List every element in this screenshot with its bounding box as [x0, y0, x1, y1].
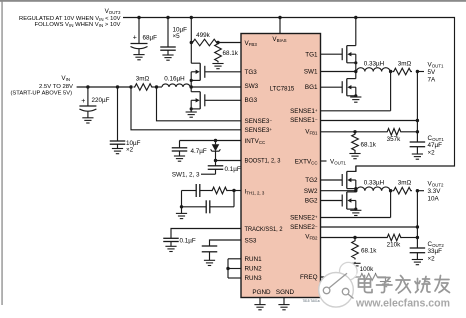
wire L1 to sense [389, 71, 392, 73]
wire VOUT3 to 499k and Q5 drain [190, 18, 192, 64]
junction dot sense2- vout2 [416, 225, 419, 228]
svg-text:VOUT3: VOUT3 [105, 8, 121, 15]
wire VFB2 run [321, 237, 356, 239]
wire VFB1 run [321, 131, 356, 133]
label + 68uF [133, 34, 157, 41]
svg-text:EXTVCC: EXTVCC [295, 158, 318, 165]
svg-text:RUN3: RUN3 [245, 275, 263, 282]
svg-text:SW1, 2, 3: SW1, 2, 3 [172, 172, 200, 179]
pin label TG2 [305, 177, 318, 184]
junction dot VOUT3-499k [190, 16, 193, 19]
wire BG3 gate lead [205, 99, 241, 101]
wire PGND [259, 298, 261, 305]
pin label TRACKSS12 [245, 226, 283, 233]
capacitor 0.1uF track [163, 238, 179, 246]
svg-text:ITH1, 2, 3: ITH1, 2, 3 [245, 188, 265, 195]
svg-text:0.33µH: 0.33µH [364, 60, 385, 67]
wire TG1 gate lead [321, 53, 343, 55]
junction dot sense3+ tap [129, 85, 132, 88]
junction dot ITH [232, 189, 235, 192]
svg-text:10A: 10A [428, 196, 440, 203]
pin label SENSE1+ [290, 108, 318, 115]
junction dot sense1- vout1 [416, 119, 419, 122]
svg-text:(START-UP ABOVE 5V): (START-UP ABOVE 5V) [11, 91, 73, 97]
svg-text:7815 TA01a: 7815 TA01a [302, 299, 319, 303]
svg-text:LTC7815: LTC7815 [270, 86, 295, 93]
ground 10uF x2 [112, 149, 123, 154]
wire INTVCC [180, 140, 242, 142]
svg-text:33µF: 33µF [428, 248, 443, 255]
wire VBIAS [279, 18, 281, 34]
svg-text:100k: 100k [360, 266, 375, 273]
wire Q1 source to SW1 [355, 63, 357, 72]
label 0.1uF track [180, 238, 196, 245]
junction dot sense1+ tap [389, 70, 392, 73]
junction dot VOUT3-VBIAS [278, 16, 281, 19]
wire Q3 drain to feed [355, 166, 357, 171]
svg-text:3mΩ: 3mΩ [136, 76, 150, 83]
wire SENSE2- run [321, 226, 418, 228]
pin label EXTVCC [295, 158, 318, 165]
pin label SW3 [245, 83, 259, 90]
svg-text:SS3: SS3 [245, 237, 257, 244]
resistor 210k [386, 234, 402, 241]
transistor Q4 (BG2 switch) [342, 192, 357, 211]
wire VOUT3 rail / node VOUT3 [123, 18, 455, 172]
wire 210k to VOUT2 [402, 237, 417, 239]
junction dot 357k vout1 [416, 130, 419, 133]
pin label VFB3 [245, 40, 258, 47]
label 3mOhm ch2 [398, 180, 412, 187]
svg-text:3.3V: 3.3V [428, 188, 442, 195]
svg-text:PGND: PGND [252, 289, 271, 296]
inductor 0.33uH ch2 [357, 187, 391, 191]
label COUT1 [428, 135, 445, 157]
ground 10uF x5 [162, 55, 173, 60]
wire ITH right leg [233, 191, 235, 207]
wire VOUT1 stub [417, 71, 424, 73]
label 4.7uF [191, 148, 207, 155]
svg-text:VFB2: VFB2 [305, 234, 318, 241]
text VIN startup [11, 91, 73, 97]
svg-text:×2: ×2 [428, 256, 436, 263]
wire L3 to SW3 node [190, 86, 191, 88]
svg-text:VOUT1: VOUT1 [428, 61, 444, 68]
svg-text:68.1k: 68.1k [223, 50, 239, 57]
wire SGND [283, 298, 285, 305]
junction dot SW2 [354, 189, 357, 192]
label 10uF x5 [173, 27, 188, 41]
svg-text:0.1µF: 0.1µF [180, 238, 196, 245]
svg-text:VFB1: VFB1 [305, 129, 318, 136]
label 0.33uH ch2 [364, 180, 385, 187]
junction dot sense2+ tap [389, 189, 392, 192]
transistor Q2 (BG1 switch) [342, 79, 357, 98]
label 210k [387, 242, 402, 249]
op-amp U1 LTC7815 block [241, 34, 321, 298]
pin label BG1 [305, 84, 318, 91]
wire VOUT2 stub [417, 190, 424, 192]
svg-text:0.33µH: 0.33µH [364, 180, 385, 187]
pin label TG3 [245, 69, 258, 76]
wire SENSE3- run [157, 87, 242, 121]
junction dot VOUT3-10uF [166, 16, 169, 19]
svg-text:+: + [133, 34, 137, 41]
pin label BG3 [245, 97, 258, 104]
wire TG2 gate lead [321, 179, 343, 181]
transistor Q5 (TG3 switch) [190, 63, 205, 82]
ground Q6 source [186, 112, 197, 117]
pin label ITH123 [245, 188, 265, 195]
svg-text:SGND: SGND [276, 289, 295, 296]
svg-text:BG1: BG1 [305, 84, 318, 91]
wire Q3 source to SW2 [355, 189, 357, 191]
svg-text:VFB3: VFB3 [245, 40, 258, 47]
capacitor 0.1uF boost [208, 161, 224, 175]
pin label TG1 [305, 51, 318, 58]
svg-text:TRACK/SS1, 2: TRACK/SS1, 2 [245, 226, 283, 233]
svg-text:210k: 210k [387, 242, 402, 249]
transistor Q6 (BG3 switch) [190, 92, 205, 111]
wire SENSE2+ run [321, 191, 391, 218]
svg-text:RUN1: RUN1 [245, 256, 263, 263]
junction dot VFB1 divider [353, 130, 356, 133]
svg-text:68.1k: 68.1k [361, 248, 377, 255]
label 499k [196, 32, 211, 39]
svg-text:+: + [81, 98, 85, 105]
wire 3m to inductor [153, 86, 162, 88]
junction dot BOOST-cap [214, 159, 217, 162]
pin label SW2 [304, 188, 318, 195]
pin label SS3 [245, 237, 257, 244]
resistor 68.1k (ch3 fb) [215, 43, 222, 63]
ground 100k [380, 282, 391, 287]
pin label VBIAS [272, 36, 286, 43]
svg-text:×2: ×2 [126, 147, 134, 154]
node label VIN [61, 75, 70, 82]
junction dot VIN-220uF [86, 85, 89, 88]
svg-text:TG1: TG1 [305, 51, 318, 58]
wire VIN rail [77, 86, 131, 88]
pin label SENSE2+ [290, 214, 318, 221]
label COUT2 [428, 241, 445, 263]
wire L2 to sense [389, 190, 392, 192]
svg-text:SW1: SW1 [304, 69, 318, 76]
wire BOOST123 [216, 160, 242, 162]
capacitor 10uF x2 [110, 87, 126, 149]
pin label PGND [252, 289, 271, 296]
watermark elecfans logo [319, 262, 357, 307]
label 68.1k ch3 [223, 50, 239, 57]
junction dot VOUT3-68uF [137, 16, 140, 19]
svg-text:BOOST1, 2, 3: BOOST1, 2, 3 [245, 157, 281, 164]
svg-text:VOUT2: VOUT2 [428, 181, 444, 188]
svg-text:3mΩ: 3mΩ [398, 60, 412, 67]
wire ITH left leg [181, 191, 183, 207]
resistor 68.1k ch2 [352, 238, 359, 260]
wire VOUT1 vertical [416, 72, 418, 143]
svg-text:www.elecfans.com: www.elecfans.com [355, 298, 450, 310]
capacitor COUT2 [410, 248, 426, 260]
pin label SENSE3- [245, 118, 273, 125]
node label SW123 [172, 172, 200, 179]
pin label RUN1 [245, 256, 263, 263]
capacitor ITH series C [182, 184, 212, 197]
junction dot SW3 [190, 85, 193, 88]
junction dot SW1 [354, 70, 357, 73]
svg-text:220µF: 220µF [92, 97, 110, 104]
wire VFB3 [218, 42, 241, 44]
node label VOUT3 [105, 8, 121, 15]
svg-text:COUT1: COUT1 [428, 135, 445, 142]
wire SW3 node to Q5 source [190, 80, 192, 87]
ground Q2 source [350, 97, 361, 102]
svg-text:0.1µF: 0.1µF [225, 166, 241, 173]
junction dot VOUT1 node [416, 70, 419, 73]
wire VFB1 to 357k [355, 131, 386, 133]
wire BG1 gate lead [321, 86, 343, 88]
ground COUT2 [412, 260, 423, 265]
watermark text chinese [356, 274, 451, 296]
pin label SENSE3+ [245, 127, 273, 134]
junction dot VFB3 node [216, 41, 219, 44]
junction dot VIN-10uFx2 [116, 85, 119, 88]
text regulated note line2 [35, 22, 121, 28]
pin label BG2 [305, 198, 318, 205]
wire 357k to VOUT1 [402, 131, 417, 133]
svg-text:47µF: 47µF [428, 142, 443, 149]
resistor 499k [191, 39, 218, 46]
svg-text:SENSE2−: SENSE2− [290, 224, 318, 231]
pin label SENSE2- [290, 224, 318, 231]
svg-text:FOLLOWS VIN WHEN VIN > 10V: FOLLOWS VIN WHEN VIN > 10V [35, 22, 121, 28]
wire to SW123 label [201, 173, 216, 175]
capacitor 68uF (polarized) [131, 18, 148, 49]
wire ITH pin [234, 190, 241, 192]
pin label SW1 [304, 69, 318, 76]
wire TRACK/SS12 [171, 229, 241, 239]
pin label VFB2 [305, 234, 318, 241]
svg-text:TG3: TG3 [245, 69, 258, 76]
resistor 3mOhm ch1 [393, 68, 413, 75]
wire VFB2 to 210k [355, 237, 386, 239]
svg-text:4.7µF: 4.7µF [191, 148, 207, 155]
label 3mOhm ch1 [398, 60, 412, 67]
svg-text:REGULATED AT 10V WHEN VIN < 10: REGULATED AT 10V WHEN VIN < 10V [19, 16, 121, 22]
resistor 100k [359, 274, 379, 281]
wire Q2 source to ground [355, 96, 357, 97]
ground SGND [278, 305, 289, 310]
svg-text:SENSE3+: SENSE3+ [245, 127, 273, 134]
diode D1 INTVCC to BOOST [211, 141, 221, 161]
wire Q6 drain to SW3 [190, 87, 192, 92]
svg-text:VOUT1: VOUT1 [330, 158, 346, 165]
capacitor 4.7uF [172, 141, 188, 157]
svg-text:INTVCC: INTVCC [245, 138, 266, 145]
watermark text url [355, 298, 450, 310]
resistor 357k [386, 129, 402, 136]
wire RUN tie [228, 259, 241, 278]
svg-text:COUT2: COUT2 [428, 241, 445, 248]
svg-text:×5: ×5 [173, 33, 181, 40]
pin label RUN3 [245, 275, 263, 282]
wire SENSE1- run [321, 120, 418, 122]
resistor 3mOhm ch3 [134, 84, 154, 91]
svg-text:FREQ: FREQ [300, 274, 318, 281]
wire Q4 drain to SW2 [355, 191, 357, 192]
pin label SENSE1- [290, 117, 318, 124]
ground PGND [254, 305, 265, 310]
capacitor COUT1 [410, 142, 426, 154]
capacitor 220uF (polarized) [79, 87, 96, 118]
label 10uF x2 [126, 140, 141, 154]
wire SW3 [191, 86, 241, 88]
pin label BOOST123 [245, 157, 281, 164]
svg-text:5V: 5V [428, 69, 437, 76]
svg-text:68.1k: 68.1k [361, 142, 377, 149]
junction dot ITH gnd node [180, 205, 183, 208]
svg-text:TG2: TG2 [305, 177, 318, 184]
label 357k [387, 136, 402, 143]
svg-text:×2: ×2 [428, 150, 436, 157]
svg-text:7A: 7A [428, 76, 437, 83]
page left border [1, 0, 2, 305]
wire SW1 [321, 71, 356, 73]
wire SW2 [321, 190, 356, 192]
pin label RUN2 [245, 266, 263, 273]
ground 220uF [82, 118, 93, 123]
wire Q2 drain to SW1 [355, 72, 357, 79]
label + 220uF [81, 97, 109, 105]
pin label FREQ [300, 274, 318, 281]
svg-text:0.16µH: 0.16µH [164, 76, 185, 83]
svg-text:SW2: SW2 [304, 188, 318, 195]
junction dot sense3- tap [155, 85, 158, 88]
junction dot VFB2 divider [353, 236, 356, 239]
pin label INTVCC [245, 138, 266, 145]
node label VOUT1 at EXTVCC [321, 158, 347, 165]
capacitor ITH parallel C [182, 200, 235, 213]
wire 100k to ground [379, 277, 386, 282]
svg-text:SENSE3−: SENSE3− [245, 118, 273, 125]
svg-text:2.5V TO 28V: 2.5V TO 28V [39, 84, 73, 90]
label LTC7815 [270, 86, 295, 93]
resistor 3mOhm ch2 [393, 187, 413, 194]
wire VOUT2 vertical [416, 191, 418, 248]
ground COUT1 [412, 154, 423, 159]
svg-text:SW3: SW3 [245, 83, 259, 90]
svg-text:BG2: BG2 [305, 198, 318, 205]
text regulated note line1 [19, 16, 121, 22]
wire FREQ [321, 276, 360, 278]
ground Q4 source [350, 210, 361, 215]
svg-text:357k: 357k [387, 136, 402, 143]
node label VOUT1 [428, 61, 444, 83]
svg-text:VIN: VIN [61, 75, 70, 82]
svg-text:68µF: 68µF [143, 34, 158, 41]
label 3mOhm ch3 [136, 76, 150, 83]
ground 4.7uF [174, 156, 185, 161]
label 0.1uF boost [225, 166, 241, 173]
text VIN range [39, 84, 73, 90]
capacitor 10uF x5 [160, 18, 176, 56]
junction dot VOUT2 node [416, 189, 419, 192]
inductor 0.33uH ch1 [357, 68, 391, 72]
wire SENSE1+ run [321, 72, 391, 111]
ground track cap [165, 246, 176, 251]
wire Q1 drain to VOUT3 rail [355, 18, 357, 46]
text figure number 7815 TA01a [302, 299, 319, 303]
ground 68uF [133, 49, 144, 60]
wire SS3 [210, 240, 242, 246]
wire BG2 gate lead [321, 200, 343, 202]
ground SS3 cap [204, 260, 215, 265]
svg-text:RUN2: RUN2 [245, 266, 263, 273]
svg-text:SENSE2+: SENSE2+ [290, 214, 318, 221]
label 100k [360, 266, 375, 273]
ground 68.1k ch1 [349, 152, 360, 159]
svg-text:3mΩ: 3mΩ [398, 180, 412, 187]
ground ITH [176, 207, 187, 219]
transistor Q3 (TG2 switch) [342, 171, 357, 190]
wire SENSE3+ run [131, 87, 241, 130]
resistor 68.1k ch1 [352, 132, 359, 152]
label 68.1k ch2 [361, 248, 377, 255]
pin label VFB1 [305, 129, 318, 136]
junction dot 499k tap [190, 41, 193, 44]
junction dot INTVCC-diode [214, 139, 217, 142]
junction dot RUN2 [226, 267, 229, 270]
svg-text:499k: 499k [196, 32, 211, 39]
junction dot VOUT3-Q1 drain [354, 16, 357, 19]
pin label SGND [276, 289, 295, 296]
ground 68.1k ch2 [349, 262, 360, 269]
ground 68.1k ch3 [212, 64, 223, 69]
svg-text:VBIAS: VBIAS [272, 36, 286, 43]
wire TG3 gate lead [205, 71, 241, 73]
resistor ITH [211, 187, 234, 194]
wire Q4 source to ground [355, 209, 357, 210]
svg-text:SENSE1+: SENSE1+ [290, 108, 318, 115]
label 68.1k ch1 [361, 142, 377, 149]
capacitor SS3 [202, 246, 218, 260]
svg-text:SENSE1−: SENSE1− [290, 117, 318, 124]
label 0.33uH ch1 [364, 60, 385, 67]
node label VOUT2 [428, 181, 444, 203]
label 0.16uH [164, 76, 185, 83]
page top border [0, 0, 466, 2]
transistor Q1 (TG1 switch) [342, 46, 357, 65]
svg-text:BG3: BG3 [245, 97, 258, 104]
wire Q6 source to ground [190, 109, 192, 112]
junction dot 210k vout2 [416, 236, 419, 239]
inductor 0.16uH [162, 84, 190, 87]
